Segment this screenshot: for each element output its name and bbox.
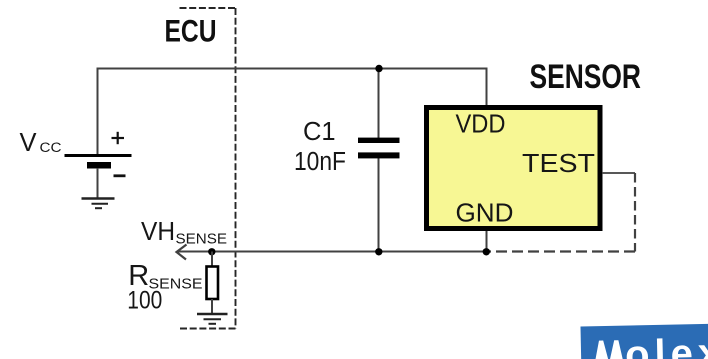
junction node on top rail at C1 bbox=[375, 65, 382, 72]
label VCC bbox=[20, 129, 62, 157]
wire battery bottom stub bbox=[97, 168, 99, 198]
svg-text:SENSE: SENSE bbox=[176, 231, 228, 248]
svg-text:ECU: ECU bbox=[165, 13, 217, 49]
wire GND pin stub bbox=[486, 229, 488, 252]
svg-text:SENSOR: SENSOR bbox=[530, 58, 642, 96]
svg-text:VH: VH bbox=[141, 216, 175, 246]
Molex wordmark: stylized M bbox=[590, 340, 629, 359]
svg-text:TEST: TEST bbox=[522, 148, 595, 178]
capacitor C1 plates bbox=[358, 138, 400, 143]
wire TEST stub (solid) bbox=[602, 172, 635, 174]
wire left drop to battery bbox=[97, 68, 99, 156]
junction node at VHsense / Rsense bbox=[208, 248, 215, 255]
ground (Rsense) bbox=[197, 314, 228, 324]
battery plus sign bbox=[112, 132, 125, 144]
wire top rail bbox=[98, 68, 487, 70]
sensor U1 box bbox=[427, 108, 601, 229]
svg-text:olex: olex bbox=[625, 331, 708, 359]
wire TEST dashed net: bottom horizontal bbox=[489, 250, 635, 252]
resistor Rsense body bbox=[207, 267, 219, 300]
ground (battery) bbox=[82, 199, 115, 209]
battery V1 plates bbox=[65, 154, 132, 157]
label Rsense bbox=[128, 260, 202, 293]
wire TEST dashed net: vertical bbox=[634, 173, 636, 252]
wire Rsense bottom stub bbox=[211, 299, 213, 314]
svg-text:10nF: 10nF bbox=[294, 148, 346, 176]
svg-text:GND: GND bbox=[456, 198, 514, 228]
svg-text:V: V bbox=[20, 129, 37, 157]
Molex logo block bbox=[580, 323, 708, 359]
wire Rsense top stub bbox=[211, 252, 213, 268]
svg-text:C1: C1 bbox=[303, 118, 336, 146]
wire bottom rail (VHsense to GND pin) bbox=[177, 251, 487, 253]
label VHsense bbox=[141, 216, 227, 248]
wire C1 bottom stub bbox=[378, 158, 380, 252]
arrow VHsense (left chevron) bbox=[177, 245, 187, 260]
ECU boundary dashed box bbox=[178, 8, 236, 329]
svg-text:100: 100 bbox=[127, 287, 162, 315]
junction node on bottom rail at C1 bbox=[375, 248, 382, 255]
wire C1 top stub bbox=[378, 69, 380, 139]
svg-text:CC: CC bbox=[40, 140, 62, 155]
battery minus sign bbox=[114, 174, 126, 177]
junction node at sensor GND bbox=[483, 248, 490, 255]
svg-text:VDD: VDD bbox=[456, 109, 506, 139]
wire VDD drop bbox=[486, 68, 488, 108]
